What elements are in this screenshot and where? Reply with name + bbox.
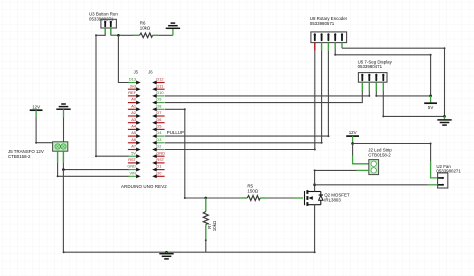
svg-text:5V: 5V: [428, 105, 433, 110]
screw terminal J2 Led Strip CTB0158-2: [368, 148, 392, 175]
svg-text:12V: 12V: [349, 130, 357, 135]
wire R6 to ground symbol: [158, 34, 173, 36]
power symbol 5V: [424, 96, 437, 110]
encoder pin2 leg: [321, 43, 323, 51]
resistor R6 10k: [133, 20, 159, 37]
svg-text:5V: 5V: [131, 150, 136, 155]
svg-text:D13: D13: [129, 77, 136, 82]
fan pin2 leg: [428, 184, 438, 186]
svg-text:A1: A1: [131, 103, 136, 108]
encoder pin5 leg: [341, 43, 343, 49]
svg-text:A4: A4: [131, 124, 137, 129]
svg-text:150Ω: 150Ω: [247, 189, 258, 194]
svg-text:RST: RST: [128, 157, 136, 162]
svg-text:J5: J5: [134, 70, 139, 75]
junction node gate/R7: [204, 197, 207, 200]
wire MOSFET drain up to led strip node: [314, 185, 316, 192]
wire encoder pin4 to 5V node: [335, 49, 430, 96]
svg-text:D12: D12: [156, 77, 163, 82]
node 5V junction: [429, 95, 432, 98]
svg-text:GND: GND: [156, 150, 165, 155]
wire node to D13 pin of J5: [118, 35, 128, 82]
resistor R5 150 ohm: [206, 184, 267, 201]
transistor Q2 MOSFET IRL3803: [305, 190, 350, 206]
svg-text:J6: J6: [148, 70, 153, 75]
wire display pin2 to D10 of J6: [165, 91, 369, 96]
svg-text:A2: A2: [131, 110, 136, 115]
svg-text:A6: A6: [131, 137, 136, 142]
svg-text:D8: D8: [156, 103, 161, 108]
svg-text:ARDUINO UNO REV2: ARDUINO UNO REV2: [121, 184, 167, 189]
wire MOSFET source to ground rail: [64, 205, 315, 253]
svg-text:CTB0158-2: CTB0158-2: [368, 153, 391, 158]
pushbutton U3 Button Run 0533980271: [89, 12, 118, 35]
svg-text:0533980571: 0533980571: [310, 21, 335, 26]
svg-text:A7: A7: [131, 144, 136, 149]
svg-text:D5: D5: [156, 124, 161, 129]
wire encoder pin2 to D3 of J6: [165, 51, 322, 143]
ground (flipped) above transfo: [56, 104, 70, 118]
svg-text:D0: D0: [156, 170, 162, 175]
resistor R7 10k (vertical): [203, 198, 217, 240]
fan pin1 leg: [431, 161, 438, 178]
wire R5 to MOSFET gate: [267, 197, 294, 199]
wire D8 of J6 to gate node: [165, 109, 206, 198]
svg-text:10kΩ: 10kΩ: [212, 220, 217, 231]
wire 12V to transfo pin1: [36, 118, 53, 143]
junction node transfo gnd: [62, 168, 65, 171]
svg-text:12V: 12V: [32, 104, 40, 109]
wire ground to transfo pin2: [63, 118, 65, 142]
display pin2 leg: [368, 82, 370, 91]
wire led strip pin2 to MOSFET drain node: [357, 169, 369, 171]
svg-text:D10: D10: [156, 90, 164, 95]
svg-text:CTB0158-2: CTB0158-2: [8, 154, 31, 159]
wire encoder pin5 to ground node: [342, 48, 445, 116]
svg-text:A5: A5: [131, 130, 136, 135]
led strip pin1 leg: [353, 156, 369, 164]
wire 12V to fan pin1: [353, 144, 431, 162]
power symbol 12V left: [30, 104, 43, 117]
encoder pin1 leg (red): [314, 43, 316, 51]
svg-text:GND: GND: [127, 164, 136, 169]
rotary encoder U8 0533980571: [310, 16, 348, 43]
svg-text:D1: D1: [156, 164, 161, 169]
svg-text:PULLUP: PULLUP: [167, 130, 184, 135]
wire fan pin2 to MOSFET drain node: [315, 184, 428, 186]
screw terminal J5 TRANSFO 12V CTB0158-2: [8, 142, 68, 163]
wire transfo pin1 to VIN of J5: [58, 163, 129, 176]
node ground junction right: [443, 115, 446, 118]
junction node button/R6/D13: [117, 34, 120, 37]
ground (flipped) at R6: [166, 23, 180, 35]
svg-text:A3: A3: [131, 117, 136, 122]
wire transfo pin2 to GND of J5: [62, 163, 64, 170]
wire display pin1 to D9 of J6 (via corner): [165, 91, 362, 103]
encoder pin3 leg: [327, 43, 329, 51]
wire 12V to led strip pin1: [352, 144, 354, 156]
svg-text:0533980471: 0533980471: [358, 64, 383, 69]
wire encoder pin3 to D4 of J6: [165, 51, 328, 137]
power symbol 12V right: [346, 130, 359, 143]
wire button pin1 to 5V pin of J5: [96, 34, 129, 156]
svg-text:D2: D2: [156, 144, 161, 149]
junction node drain/fan: [313, 183, 316, 186]
display pin1 leg: [361, 82, 363, 91]
ground right: [437, 116, 451, 125]
display pin4 leg: [382, 82, 384, 91]
display pin3 leg: [375, 82, 377, 91]
svg-text:D4: D4: [156, 130, 162, 135]
wire encoder pin1 to D2 of J6: [165, 51, 315, 150]
svg-text:10kΩ: 10kΩ: [140, 25, 151, 30]
svg-text:D7: D7: [156, 110, 161, 115]
svg-text:3v3: 3v3: [130, 83, 136, 88]
connector U2 Fan 0533980271: [436, 164, 461, 188]
wire display pin3 to 5V node: [376, 91, 430, 96]
wire display pin4 to ground node: [383, 91, 444, 116]
connector J6 header right (Arduino right pins): [148, 70, 184, 179]
svg-text:RST: RST: [156, 157, 164, 162]
svg-text:D9: D9: [156, 97, 161, 102]
svg-text:D11: D11: [156, 83, 163, 88]
svg-text:A0: A0: [131, 97, 137, 102]
svg-text:D6: D6: [156, 117, 161, 122]
7-segment display U5 0533980471: [358, 59, 393, 82]
ground rail junction: [165, 251, 168, 254]
svg-text:VIN: VIN: [130, 170, 137, 175]
svg-text:IRL3803: IRL3803: [324, 197, 341, 202]
wire button pin2 to R6 and node: [110, 34, 112, 35]
encoder pin4 leg: [334, 43, 336, 49]
junction node 12V: [351, 142, 354, 145]
svg-text:REF: REF: [128, 90, 136, 95]
wire R7 to ground rail: [205, 239, 207, 241]
connector J5 header left (Arduino left pins): [127, 70, 140, 179]
svg-text:D3: D3: [156, 137, 161, 142]
wire transfo gnd down to ground rail: [62, 170, 64, 253]
ground bottom center: [159, 252, 173, 259]
